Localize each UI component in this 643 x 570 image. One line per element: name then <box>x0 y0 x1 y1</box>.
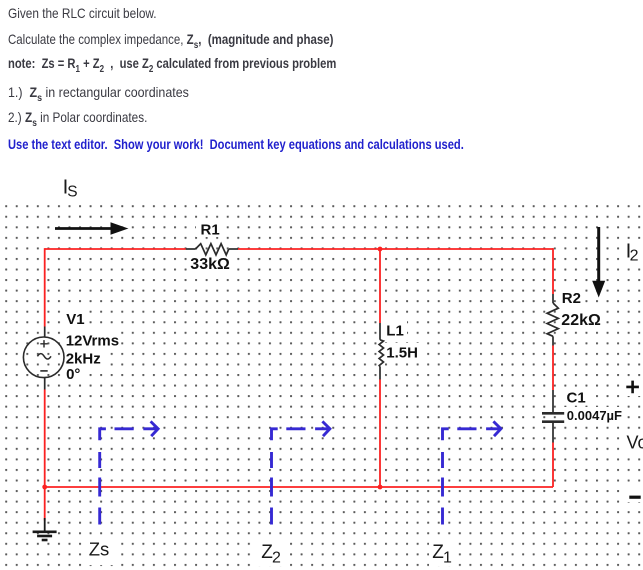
instruction text line 3 <box>8 56 336 70</box>
svg-text:0.0047µF: 0.0047µF <box>567 408 622 423</box>
node junction: top middle <box>378 247 383 252</box>
svg-text:Vo: Vo <box>627 433 643 453</box>
svg-text:22kΩ: 22kΩ <box>561 312 601 329</box>
capacitor C1 <box>542 390 564 443</box>
impedance arrow Z2 <box>272 421 330 524</box>
svg-text:L1: L1 <box>386 322 404 339</box>
wire: middle vertical lower <box>379 380 381 488</box>
instruction text line 5 <box>8 110 147 124</box>
node junction: bottom left <box>42 485 47 490</box>
svg-text:12Vrms: 12Vrms <box>66 333 119 350</box>
instruction text line 2 <box>8 32 333 46</box>
svg-text:R2: R2 <box>562 290 581 307</box>
svg-text:2: 2 <box>630 248 639 265</box>
svg-text:2: 2 <box>272 550 281 567</box>
wire: top left horizontal <box>45 248 186 250</box>
instruction text line 1 <box>8 6 157 20</box>
wire: middle vertical upper <box>379 249 381 323</box>
resistor R1 <box>186 244 238 255</box>
current arrow Is <box>55 222 129 235</box>
wire: top right horizontal <box>238 248 553 250</box>
svg-text:S: S <box>67 184 77 201</box>
svg-text:0°: 0° <box>66 366 80 383</box>
wire: bottom horizontal <box>45 486 553 488</box>
label background masks <box>62 220 643 566</box>
instruction text line 4 <box>8 85 189 99</box>
current arrow I2 <box>592 227 605 298</box>
svg-text:33kΩ: 33kΩ <box>190 256 230 273</box>
wire: left vertical lower <box>44 390 46 521</box>
svg-text:Zs: Zs <box>89 539 110 560</box>
svg-text:V1: V1 <box>66 311 84 328</box>
output polarity plus <box>626 381 639 394</box>
impedance arrow Zs <box>100 421 158 524</box>
output polarity minus <box>629 496 640 499</box>
ground <box>33 518 57 540</box>
svg-text:C1: C1 <box>567 389 586 406</box>
instruction text line 6 <box>8 137 464 151</box>
dotted grid background <box>0 202 643 568</box>
wire: right vertical segments <box>552 248 554 487</box>
wire: left vertical upper <box>44 248 46 326</box>
impedance arrow Z1 <box>443 421 501 524</box>
svg-text:1.5H: 1.5H <box>386 344 418 361</box>
node junction: bottom middle <box>378 485 383 490</box>
svg-text:2kHz: 2kHz <box>66 351 101 368</box>
resistor R2 <box>547 294 558 346</box>
svg-text:R1: R1 <box>201 221 220 238</box>
inductor L1 <box>379 323 383 380</box>
svg-text:1: 1 <box>443 550 452 567</box>
source V1 <box>23 327 64 390</box>
